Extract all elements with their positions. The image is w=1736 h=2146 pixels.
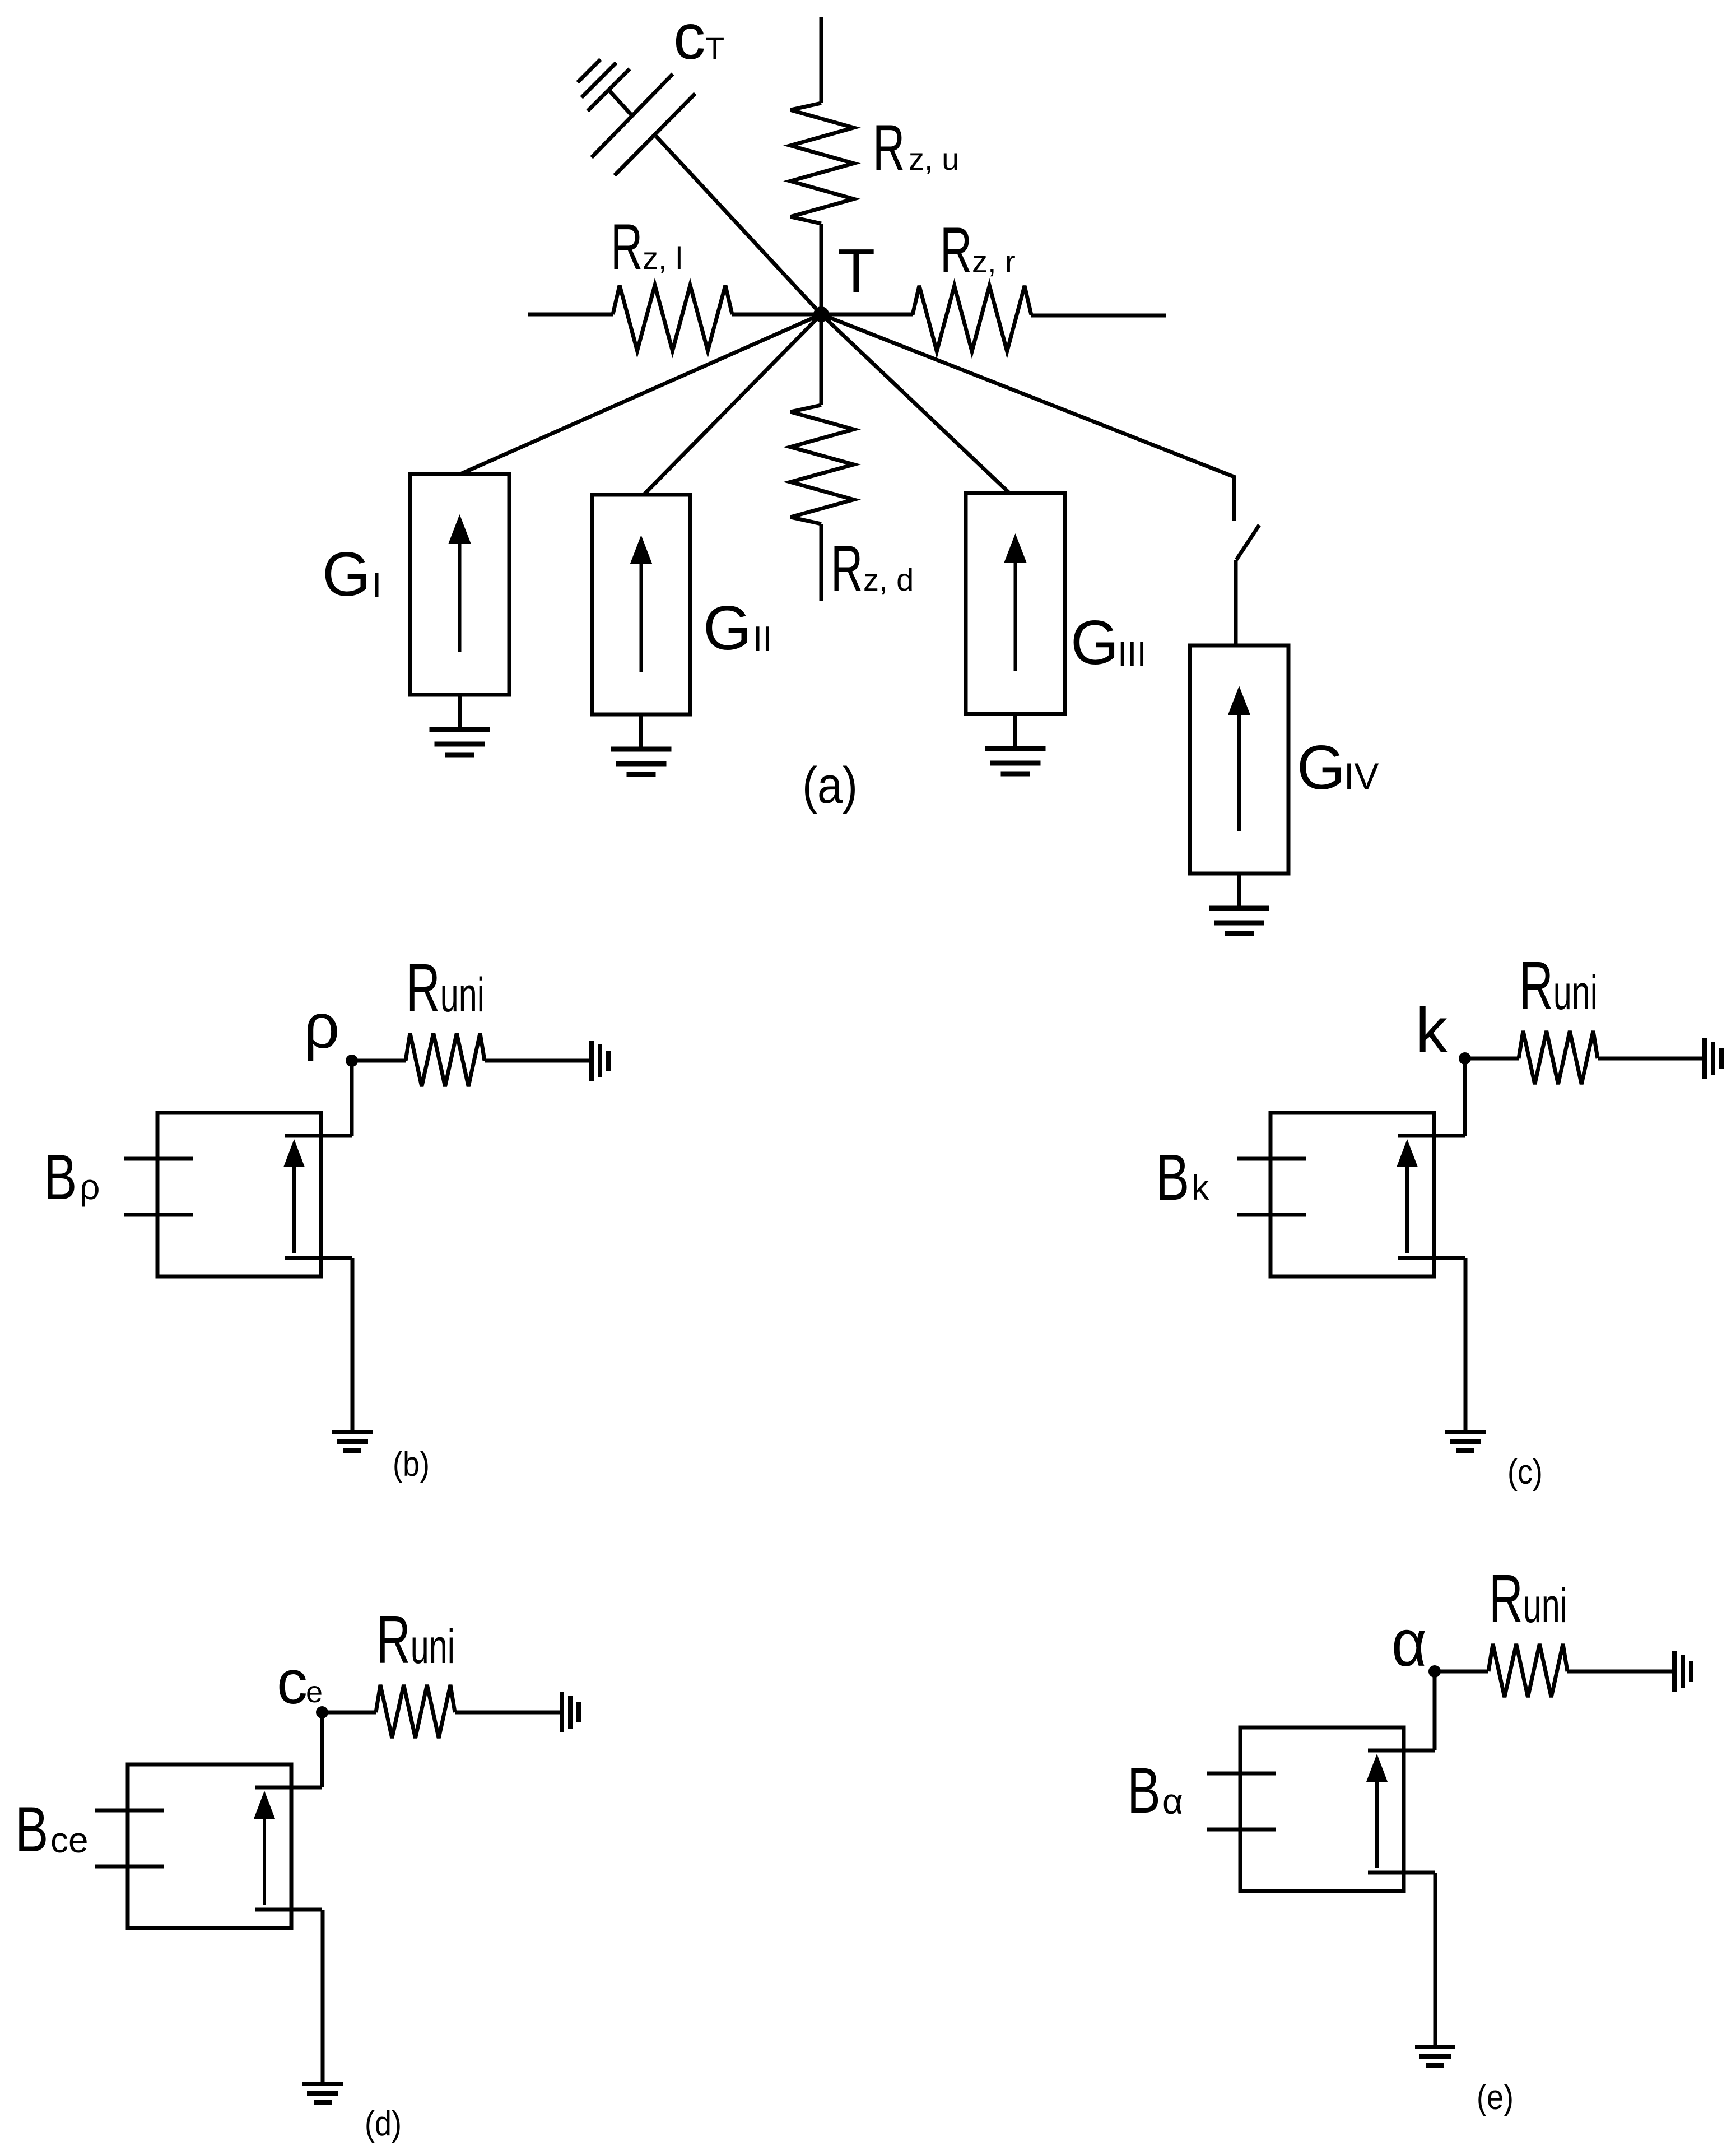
label Balpha — [1127, 1754, 1161, 1826]
wire node T to Rz,d — [820, 314, 823, 405]
Balpha left terminal tick 2 — [1207, 1828, 1276, 1832]
svg-text:R: R — [831, 532, 863, 604]
wire bottom bar to ground — [1464, 1258, 1468, 1432]
current source GIV box — [1190, 645, 1288, 874]
svg-text:G: G — [1297, 733, 1345, 802]
svg-text:R: R — [611, 211, 643, 282]
Balpha internal top bar — [1368, 1749, 1435, 1753]
dependent source Balpha box — [1240, 1727, 1404, 1891]
chassis ground hatch line 3 — [578, 59, 601, 82]
svg-text:T: T — [837, 236, 875, 305]
wire left of Rz,l — [528, 313, 613, 317]
wire node to top bar — [1463, 1058, 1467, 1136]
wire node T to GI — [460, 314, 821, 474]
svg-text:z, l: z, l — [643, 240, 683, 276]
svg-text:z, r: z, r — [972, 244, 1016, 279]
current source GIII box — [966, 493, 1065, 714]
chassis ground hatch line 1 — [588, 69, 630, 111]
svg-text:c: c — [277, 1648, 308, 1717]
svg-text:R: R — [873, 112, 905, 183]
svg-text:z, d: z, d — [863, 562, 914, 597]
resistor Runi — [1488, 1644, 1567, 1697]
wire Runi to chassis — [485, 1059, 592, 1063]
svg-text:ρ: ρ — [80, 1167, 100, 1207]
capacitor CT plate (ground side) — [592, 74, 673, 157]
wire node T to capacitor CT — [656, 136, 821, 314]
label Brho — [44, 1141, 77, 1213]
wire CT plate to chassis hatch — [609, 90, 632, 115]
label node alpha — [1391, 1606, 1427, 1680]
label Runi — [376, 1602, 455, 1678]
Bk left terminal tick 2 — [1237, 1213, 1306, 1217]
current source GII box — [592, 495, 690, 714]
wire node to Runi — [1435, 1670, 1488, 1674]
resistor Runi — [406, 1033, 485, 1086]
svg-text:(a): (a) — [802, 757, 858, 814]
svg-text:T: T — [705, 30, 724, 66]
resistor Rz,d — [790, 405, 854, 524]
wire Runi to chassis — [1598, 1057, 1705, 1061]
wire Runi to chassis — [455, 1711, 562, 1715]
ground below GI — [430, 727, 490, 732]
Balpha arrow — [1375, 1772, 1379, 1868]
resistor Runi — [376, 1685, 455, 1738]
wire bottom bar to ground — [351, 1258, 355, 1432]
Bce internal bottom bar — [255, 1908, 322, 1912]
dependent source Bk box — [1270, 1113, 1434, 1276]
svg-text:ce: ce — [50, 1820, 89, 1860]
current source GI box — [410, 474, 509, 695]
current source GIV arrow — [1237, 702, 1241, 831]
Brho left terminal tick 2 — [124, 1213, 193, 1217]
svg-text:G: G — [1071, 608, 1119, 677]
label Runi — [1489, 1561, 1567, 1637]
caption (b) — [393, 1445, 430, 1484]
node alpha — [1428, 1665, 1441, 1678]
wire node T to GII — [644, 314, 821, 495]
svg-text:B: B — [44, 1141, 77, 1213]
node ce — [316, 1706, 328, 1718]
ground below GIV — [1209, 906, 1269, 911]
resistor Rz,r — [913, 286, 1031, 351]
chassis ground (right) — [1672, 1651, 1677, 1692]
wire GIV to ground — [1237, 874, 1241, 908]
wire node to top bar — [350, 1061, 354, 1136]
current source GII arrow — [640, 551, 643, 672]
wire node to Runi — [1465, 1057, 1519, 1061]
wire GII to ground — [639, 714, 643, 749]
wire node T to switch of GIV — [821, 314, 1234, 521]
svg-text:I: I — [372, 566, 381, 605]
wire node to Runi — [352, 1059, 406, 1063]
svg-text:(e): (e) — [1477, 2078, 1514, 2117]
label Rz,d — [831, 532, 863, 604]
caption (c) — [1507, 1453, 1543, 1492]
label Rz,u — [873, 112, 905, 183]
ground symbol — [332, 1430, 373, 1434]
chassis ground (right) — [589, 1041, 594, 1081]
Brho arrow — [292, 1158, 296, 1253]
Bk left terminal tick 1 — [1237, 1157, 1306, 1161]
svg-text:III: III — [1118, 635, 1147, 673]
Balpha internal bottom bar — [1368, 1871, 1435, 1875]
wire top stub above Rz,u — [820, 17, 823, 103]
Bk arrow — [1405, 1158, 1409, 1253]
wire Rz,l to node T — [732, 313, 821, 317]
Bce internal top bar — [255, 1786, 322, 1790]
svg-text:k: k — [1416, 995, 1448, 1066]
caption (e) — [1477, 2078, 1514, 2117]
Bk internal top bar — [1398, 1134, 1465, 1138]
label Bk — [1156, 1141, 1189, 1214]
svg-text:B: B — [15, 1793, 48, 1865]
resistor Rz,u — [790, 103, 854, 224]
wire node T to Rz,r — [821, 313, 913, 317]
wire right of Rz,r — [1031, 314, 1166, 318]
wire Runi to chassis — [1567, 1670, 1674, 1674]
wire GIII to ground — [1013, 714, 1017, 749]
svg-text:IV: IV — [1344, 755, 1379, 797]
svg-text:α: α — [1162, 1781, 1183, 1822]
ground symbol — [302, 2082, 343, 2086]
svg-text:B: B — [1127, 1754, 1161, 1826]
Bce left terminal tick 2 — [95, 1865, 164, 1869]
capacitor CT plate (node side) — [615, 94, 695, 175]
wire node to top bar — [320, 1712, 324, 1787]
wire node T to GIII — [821, 314, 1009, 493]
label Bce — [15, 1793, 48, 1865]
current source GI arrow — [458, 530, 462, 652]
svg-text:(d): (d) — [365, 2105, 402, 2143]
ground symbol — [1445, 1430, 1486, 1434]
wire bottom bar to ground — [1434, 1873, 1437, 2047]
label Rz,l — [611, 211, 643, 282]
svg-text:α: α — [1391, 1606, 1427, 1680]
svg-text:G: G — [703, 593, 751, 663]
dependent source Brho box — [157, 1113, 321, 1276]
svg-text:G: G — [322, 540, 370, 609]
label Runi — [1519, 948, 1598, 1024]
Brho internal bottom bar — [285, 1256, 352, 1260]
svg-text:B: B — [1156, 1141, 1189, 1214]
caption (d) — [365, 2105, 402, 2143]
svg-text:R: R — [940, 214, 972, 286]
Balpha left terminal tick 1 — [1207, 1772, 1276, 1776]
wire bottom bar to ground — [321, 1910, 325, 2084]
Bk internal bottom bar — [1398, 1256, 1465, 1260]
label Rz,r — [940, 214, 972, 286]
dependent source Bce box — [128, 1764, 291, 1928]
Brho left terminal tick 1 — [124, 1157, 193, 1161]
caption (a) — [802, 757, 858, 814]
current source GIII arrow — [1014, 549, 1017, 671]
wire node to top bar — [1433, 1671, 1437, 1750]
ground symbol — [1415, 2045, 1455, 2049]
wire node to Runi — [322, 1711, 376, 1715]
svg-text:z, u: z, u — [909, 141, 959, 176]
svg-text:ρ: ρ — [304, 991, 339, 1061]
wire Rz,u to node T — [820, 224, 823, 314]
svg-text:e: e — [306, 1675, 323, 1709]
Brho internal top bar — [285, 1134, 352, 1138]
svg-text:II: II — [753, 620, 772, 658]
node rho — [346, 1055, 358, 1067]
wire below Rz,d (open end) — [820, 524, 823, 601]
node k — [1459, 1052, 1471, 1065]
chassis ground (right) — [1702, 1038, 1707, 1079]
svg-text:(b): (b) — [393, 1445, 430, 1484]
Bce left terminal tick 1 — [95, 1809, 164, 1813]
svg-text:k: k — [1192, 1168, 1209, 1207]
node T — [813, 306, 829, 322]
chassis ground (right) — [560, 1692, 564, 1732]
svg-text:c: c — [673, 1, 706, 73]
svg-text:(c): (c) — [1507, 1453, 1543, 1492]
switch blade (open) — [1236, 525, 1259, 560]
ground below GIII — [985, 746, 1046, 751]
resistor Runi — [1519, 1031, 1598, 1084]
resistor Rz,l — [613, 285, 732, 351]
wire GI to ground — [458, 695, 462, 730]
Bce arrow — [263, 1809, 266, 1905]
wire switch to GIV — [1234, 560, 1238, 645]
label Runi — [406, 950, 485, 1026]
chassis ground hatch line 2 — [581, 63, 616, 97]
ground below GII — [611, 747, 672, 752]
